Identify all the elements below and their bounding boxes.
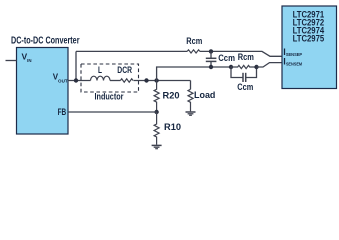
wire lower sense line: [157, 67, 231, 81]
node FB junction: [154, 110, 158, 114]
svg-text:LTC2975: LTC2975: [293, 33, 325, 43]
node Ccm top junction: [209, 49, 213, 53]
svg-text:R10: R10: [164, 122, 181, 132]
svg-text:R20: R20: [163, 91, 180, 101]
svg-text:Rcm: Rcm: [186, 36, 202, 46]
node inductor output: [144, 78, 148, 82]
resistor Rcm top: [187, 50, 200, 53]
wire load drop: [190, 81, 192, 90]
svg-text:Load: Load: [194, 90, 215, 100]
svg-text:DCR: DCR: [117, 65, 132, 75]
node RC right: [254, 65, 258, 69]
node sense tap: [154, 78, 158, 82]
svg-text:Inductor: Inductor: [95, 92, 124, 102]
svg-text:Rcm: Rcm: [238, 52, 254, 62]
node VOUT junction: [74, 78, 78, 82]
node RC left: [229, 65, 233, 69]
wire VOUT up to top sense line: [75, 51, 77, 80]
node Ccm bottom: [209, 65, 213, 69]
wire VIN stub: [6, 60, 17, 62]
svg-text:L: L: [98, 65, 102, 75]
wire output rail: [134, 80, 191, 82]
capacitor Ccm parallel: [231, 67, 257, 82]
svg-text:Ccm: Ccm: [237, 82, 253, 92]
capacitor Ccm shunt: [206, 51, 217, 67]
wire VOUT to inductor coil: [68, 80, 91, 82]
resistor R10: [154, 112, 159, 145]
inductor dashed box: [81, 64, 139, 92]
svg-text:DC-to-DC Converter: DC-to-DC Converter: [11, 36, 80, 47]
LTC chip box: [282, 6, 337, 89]
ground R10: [152, 145, 162, 148]
resistor Rcm lower: [231, 65, 257, 68]
wire RC to ISENSEM pin: [257, 63, 283, 67]
ground Load: [186, 112, 196, 115]
svg-text:Ccm: Ccm: [218, 53, 235, 63]
resistor Load: [188, 89, 193, 111]
wire top sense line left of Rcm: [76, 50, 187, 52]
svg-text:FB: FB: [58, 107, 67, 117]
wire FB: [68, 111, 157, 113]
DC-to-DC converter box: [17, 48, 69, 135]
resistor DCR: [120, 79, 133, 82]
resistor R20: [154, 81, 159, 113]
wire coil to DCR: [110, 80, 120, 82]
wire top sense line right of Rcm to ISENSEP pin: [200, 51, 282, 56]
inductor L coil: [91, 76, 111, 80]
